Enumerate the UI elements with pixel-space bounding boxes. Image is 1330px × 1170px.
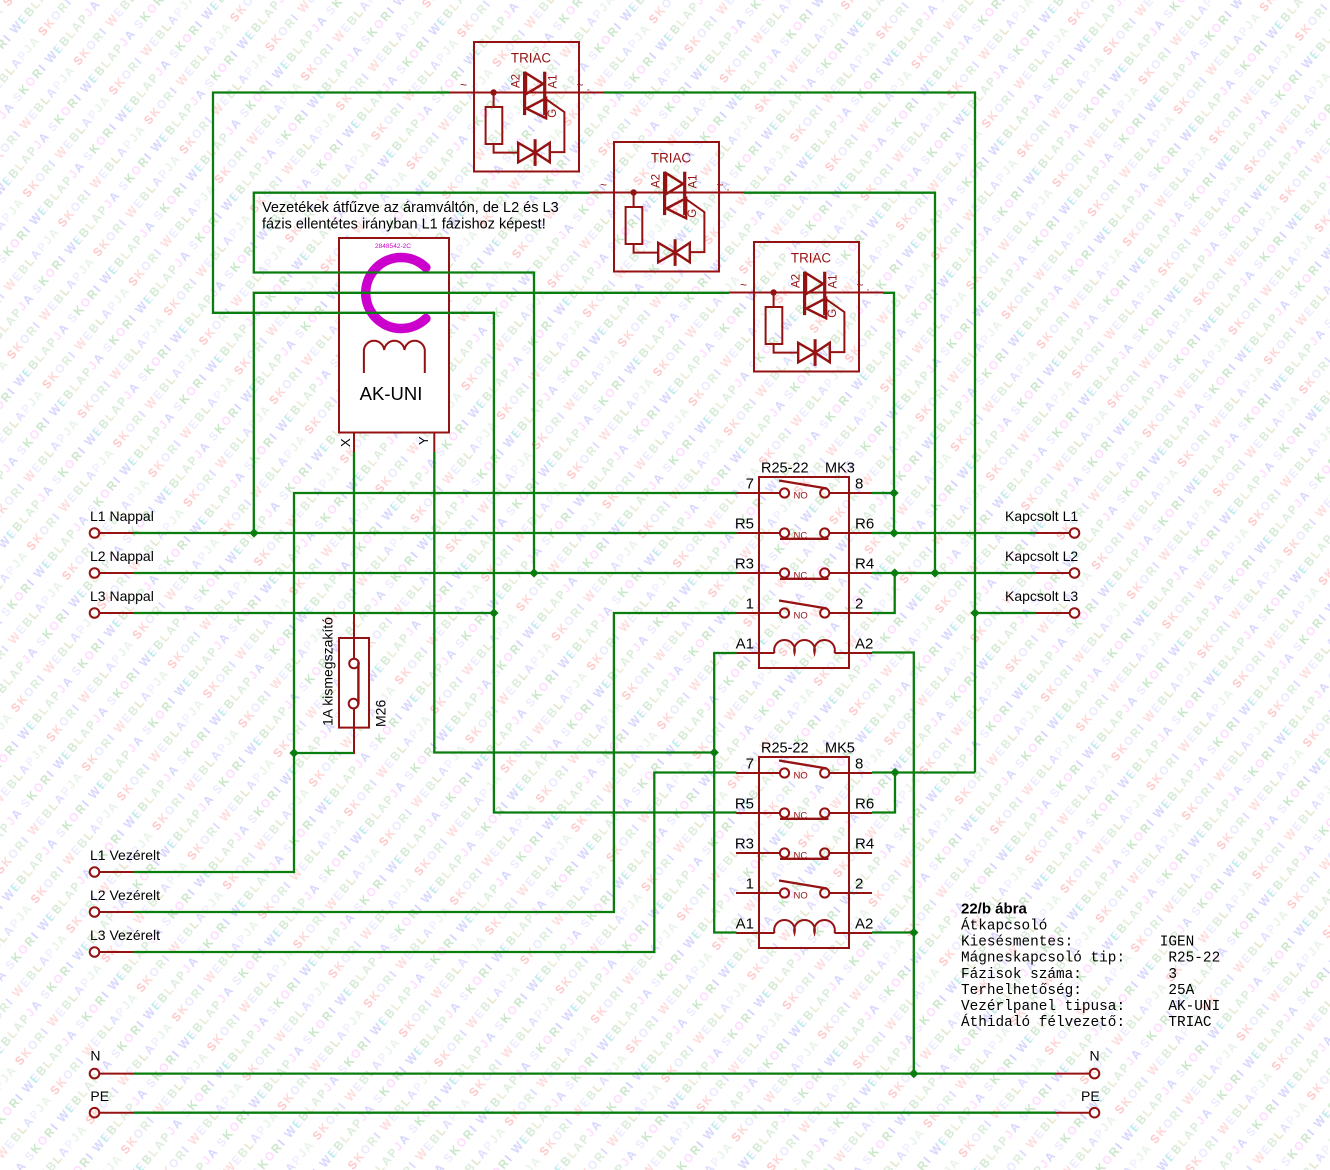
svg-text:L3 Nappal: L3 Nappal [90, 588, 154, 604]
svg-text:R6: R6 [855, 796, 874, 813]
fuse top wire [353, 613, 355, 659]
svg-text:3: 3 [1168, 967, 1177, 983]
wire X pin to fuse [353, 452, 355, 613]
svg-text:2: 2 [855, 876, 863, 893]
svg-text:Vezetékek átfűzve az áramváltó: Vezetékek átfűzve az áramváltón, de L2 é… [262, 200, 559, 216]
terminal N left [90, 1069, 100, 1079]
junction MK5 pin8 [890, 768, 899, 777]
pin Y stub [433, 433, 435, 453]
terminal L2 Nappal [90, 568, 100, 578]
wire MK3 pin2 riser [872, 573, 895, 613]
pin X stub [353, 433, 355, 453]
svg-text:L2 Nappal: L2 Nappal [90, 548, 154, 564]
svg-text:Vezérlpanel tipusa:: Vezérlpanel tipusa: [961, 999, 1125, 1015]
svg-text:TRIAC: TRIAC [1168, 1015, 1212, 1031]
CT magenta C ring [366, 258, 426, 329]
svg-text:22/b ábra: 22/b ábra [961, 901, 1028, 918]
svg-text:PE: PE [90, 1088, 109, 1104]
svg-text:Mágneskapcsoló tip:: Mágneskapcsoló tip: [961, 951, 1125, 967]
wire MK5 R6 riser [872, 773, 895, 813]
MK3 pin labels left [735, 476, 754, 653]
svg-text:R3: R3 [735, 556, 754, 573]
svg-text:8: 8 [855, 756, 863, 773]
wire Kapcsolt L3 [975, 612, 1036, 614]
MK5 pin labels left [735, 756, 754, 933]
wire N [134, 1072, 1056, 1074]
junction Kapcsolt L3 [970, 608, 979, 617]
svg-text:1: 1 [746, 876, 754, 893]
terminal L1 Nappal [90, 528, 100, 538]
svg-text:fázis ellentétes irányban L1 f: fázis ellentétes irányban L1 fázishoz ké… [262, 217, 546, 233]
relay MK5 [736, 757, 872, 948]
svg-text:MK5: MK5 [825, 741, 855, 757]
fuse top circle [349, 659, 359, 669]
wire PE [134, 1112, 1056, 1114]
svg-text:25A: 25A [1168, 983, 1194, 999]
svg-text:R25-22: R25-22 [761, 741, 809, 757]
terminal L2 Vezerelt [90, 907, 100, 917]
wire L3 Nappal [134, 612, 494, 614]
svg-text:L1 Nappal: L1 Nappal [90, 508, 154, 524]
svg-text:N: N [90, 1048, 100, 1064]
junction Kapcsolt L2 b [930, 568, 939, 577]
junction Kapcsolt L1 [889, 528, 898, 537]
CT coil [364, 341, 425, 373]
svg-text:MK3: MK3 [825, 461, 855, 477]
wire TRIAC3 row left / L1 riser [254, 293, 729, 533]
wire L1 Nappal [134, 532, 737, 534]
svg-text:1A kismegszakító: 1A kismegszakító [320, 617, 336, 726]
svg-text:2: 2 [855, 596, 863, 613]
svg-text:Kiesésmentes:: Kiesésmentes: [961, 935, 1073, 951]
AK-UNI current transformer box (white fill) [339, 238, 449, 433]
wire L2 Nappal [134, 572, 737, 574]
green wires [134, 93, 1056, 1113]
wire TRIAC1 row left [213, 93, 737, 813]
svg-text:Kapcsolt L3: Kapcsolt L3 [1005, 588, 1078, 604]
svg-text:AK-UNI: AK-UNI [1168, 999, 1220, 1015]
svg-text:7: 7 [746, 756, 754, 773]
svg-text:AK-UNI: AK-UNI [360, 383, 423, 404]
fuse bottom wire [353, 708, 355, 754]
terminal L1 Vezerelt [90, 867, 100, 877]
wire MK3 A1 to MK5 A1 [714, 653, 736, 933]
terminal L3 Nappal [90, 608, 100, 618]
terminal Kapcsolt L3 [1070, 608, 1080, 618]
junction L3N TRIAC1 [489, 608, 498, 617]
MK5 pin labels right [855, 756, 874, 933]
wire MK3 A2 to N [872, 653, 914, 1074]
terminal PE right [1090, 1108, 1100, 1118]
wire MK3 pin8 [872, 492, 894, 494]
svg-text:Áthidaló félvezető:: Áthidaló félvezető: [961, 1013, 1125, 1031]
svg-text:IGEN: IGEN [1160, 935, 1195, 951]
svg-text:Terhelhetőség:: Terhelhetőség: [961, 983, 1082, 999]
terminal N right [1090, 1069, 1100, 1079]
wire fuse bottom link [294, 752, 354, 754]
svg-text:A2: A2 [855, 916, 873, 933]
junction pin8 MK3 [889, 488, 898, 497]
wire MK5 pin7 feed [134, 773, 737, 953]
wire TRIAC3 row right [883, 293, 894, 533]
svg-text:R6: R6 [855, 516, 874, 533]
terminal labels [90, 508, 1100, 1104]
left terminals [90, 528, 1100, 1117]
svg-text:Y: Y [416, 436, 431, 445]
svg-text:R4: R4 [855, 556, 874, 573]
wire MK5 pin8 row [872, 771, 975, 773]
svg-text:A2: A2 [855, 636, 873, 653]
wire MK5 A2 [872, 931, 914, 933]
TRIAC U2 [589, 142, 744, 272]
svg-text:2848542-2C: 2848542-2C [375, 243, 411, 250]
svg-text:R25-22: R25-22 [1168, 951, 1220, 967]
wire Kapcsolt L2 [872, 572, 1036, 574]
junction fuse bottom [289, 748, 298, 757]
svg-text:L1 Vezérelt: L1 Vezérelt [90, 847, 160, 863]
svg-text:N: N [1090, 1048, 1100, 1064]
junction N [909, 1069, 918, 1078]
terminal Kapcsolt L2 [1070, 568, 1080, 578]
svg-text:8: 8 [855, 476, 863, 493]
svg-text:R5: R5 [735, 796, 754, 813]
wire MK3 pin1 feed [134, 613, 737, 912]
TRIAC U1 [449, 42, 604, 172]
junction L1N riser [249, 528, 258, 537]
fuse blade [357, 663, 359, 705]
svg-text:M26: M26 [373, 700, 389, 727]
MK3 pin labels right [855, 476, 874, 653]
terminal Kapcsolt L1 [1070, 528, 1080, 538]
svg-text:R4: R4 [855, 836, 874, 853]
svg-text:L2 Vezérelt: L2 Vezérelt [90, 887, 160, 903]
svg-text:A1: A1 [736, 916, 754, 933]
wire TRIAC2 row left [254, 193, 589, 573]
terminal L3 Vezerelt [90, 947, 100, 957]
wire Kapcsolt L1 [872, 532, 1036, 534]
wire TRIAC1 row right [604, 93, 975, 773]
junction coil feed [710, 748, 719, 757]
svg-text:A1: A1 [736, 636, 754, 653]
wire Y pin to coils [434, 452, 714, 753]
svg-text:Kapcsolt L2: Kapcsolt L2 [1005, 548, 1078, 564]
svg-text:R25-22: R25-22 [761, 461, 809, 477]
svg-text:Kapcsolt L1: Kapcsolt L1 [1005, 508, 1078, 524]
svg-text:Fázisok száma:: Fázisok száma: [961, 967, 1082, 983]
fuse bottom circle [349, 699, 359, 709]
svg-text:X: X [338, 438, 353, 447]
wire TRIAC2 row right [744, 193, 935, 573]
svg-text:R5: R5 [735, 516, 754, 533]
junction L2N TRIAC2 [529, 568, 538, 577]
wire MK3 pin7 feed [134, 493, 737, 872]
junction MK5 A2 [909, 928, 918, 937]
TRIAC U3 [729, 242, 884, 372]
terminal PE left [90, 1108, 100, 1118]
svg-text:PE: PE [1081, 1088, 1100, 1104]
svg-text:1: 1 [746, 596, 754, 613]
svg-text:Átkapcsoló: Átkapcsoló [961, 917, 1047, 935]
svg-text:7: 7 [746, 476, 754, 493]
svg-text:L3 Vezérelt: L3 Vezérelt [90, 927, 160, 943]
svg-text:R3: R3 [735, 836, 754, 853]
junction Kapcsolt L2 a [890, 568, 899, 577]
relay MK3 [736, 477, 872, 668]
fuse M26 box (white fill) [339, 638, 369, 728]
